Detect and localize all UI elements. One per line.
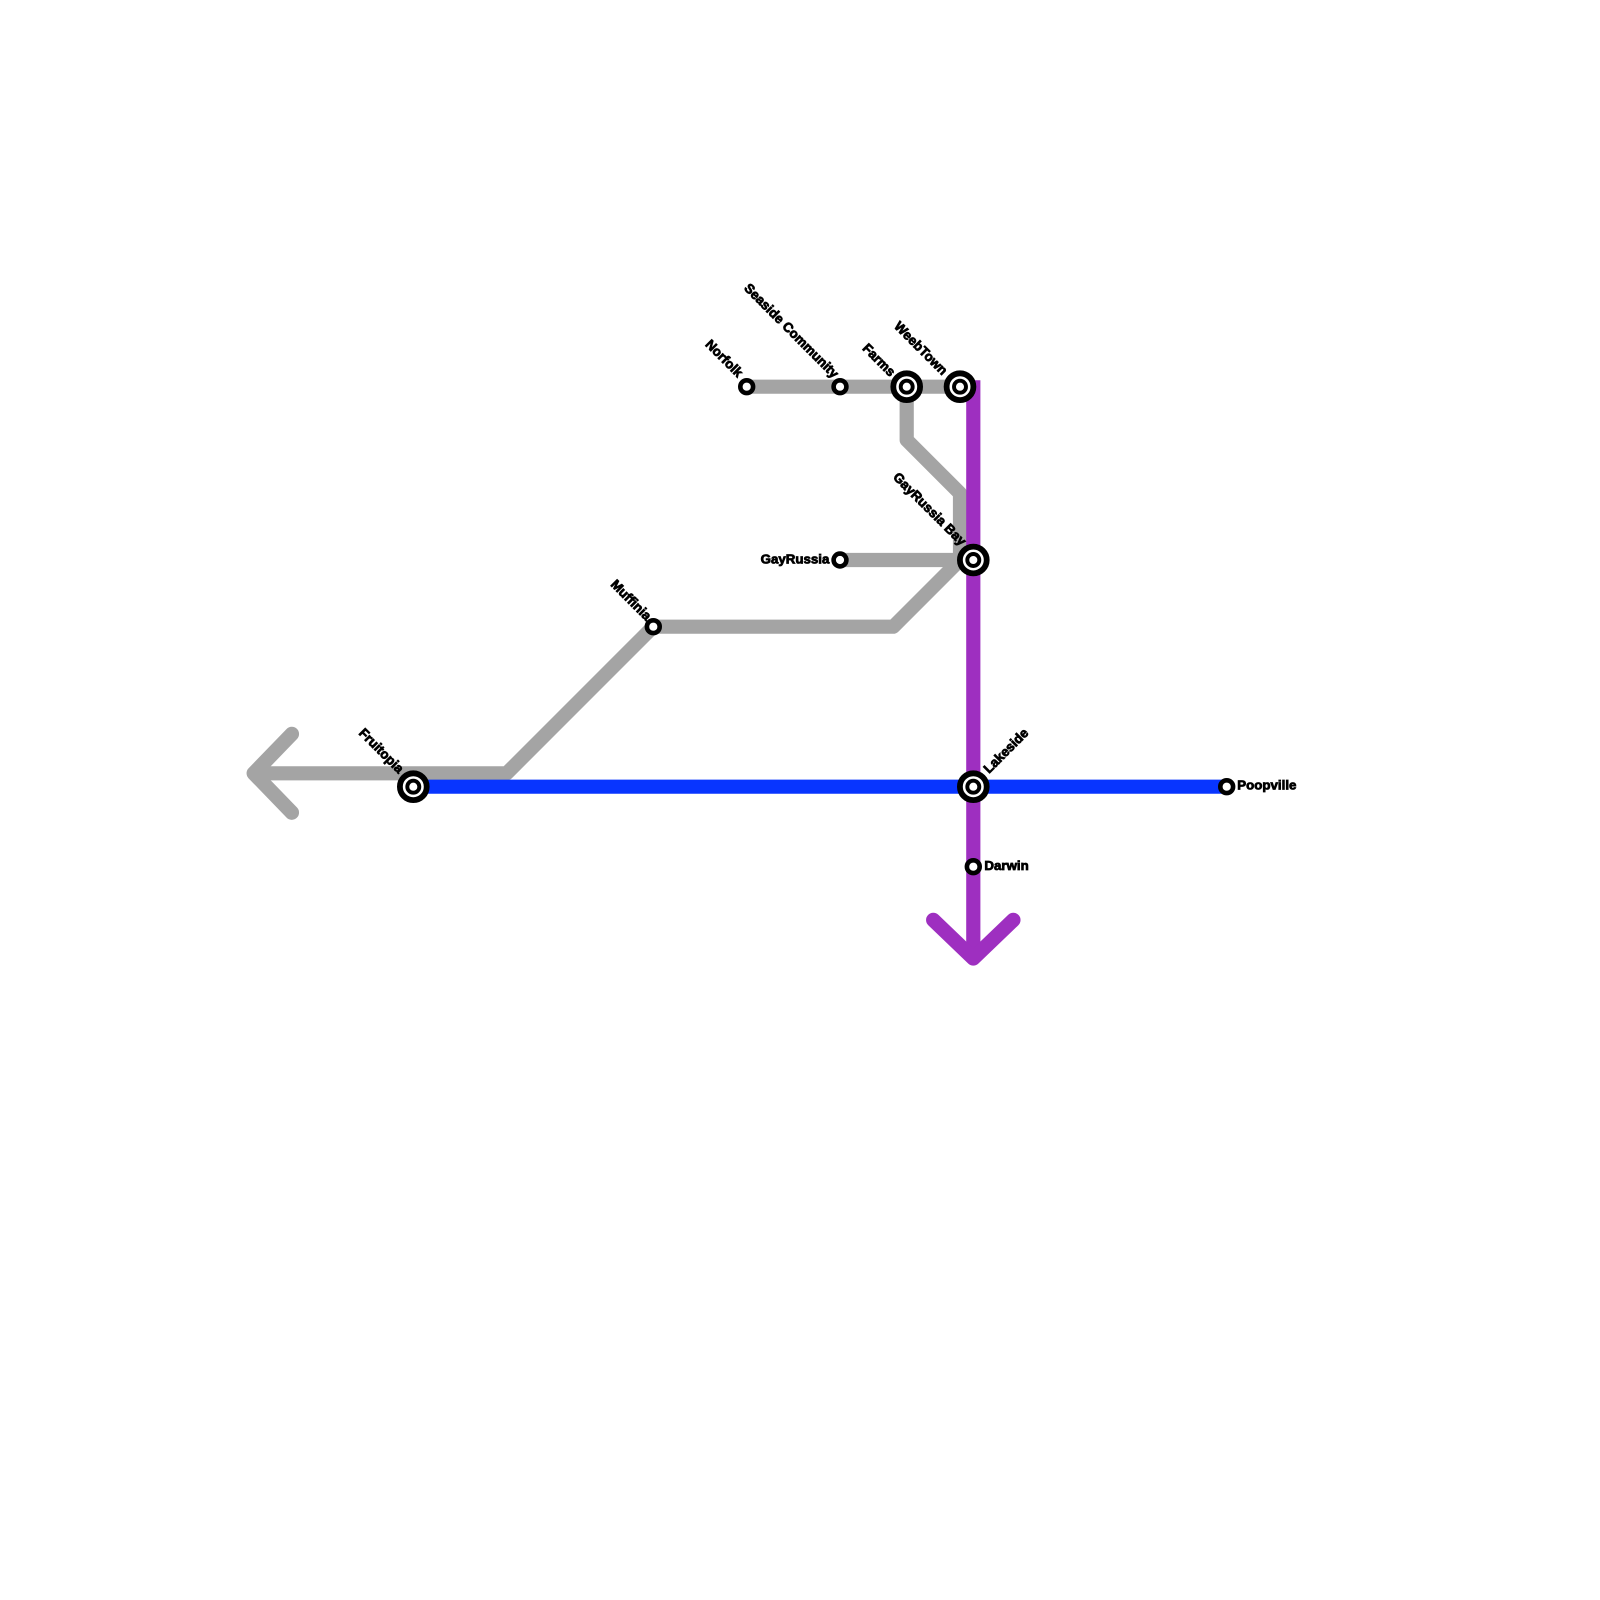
svg-text:GayRussia: GayRussia xyxy=(761,551,830,566)
station Darwin xyxy=(967,860,980,873)
station Fruitopia (transfer) xyxy=(400,773,427,800)
wire blue line Fruitopia-Poopville xyxy=(413,780,1226,794)
station Seaside Community xyxy=(834,380,847,393)
svg-text:Poopville: Poopville xyxy=(1237,778,1296,793)
station Poopville xyxy=(1220,780,1233,793)
station Farms (transfer) xyxy=(893,373,920,400)
wire gray spur GayRussia-GayRussia Bay xyxy=(840,553,973,567)
station GayRussia xyxy=(834,554,847,567)
station Lakeside (transfer) xyxy=(960,773,987,800)
wire gray line Norfolk-WeebTown xyxy=(747,380,960,394)
purple arrow south end xyxy=(933,920,1013,958)
station Muffinia xyxy=(647,620,660,633)
station Norfolk xyxy=(740,380,753,393)
station GayRussia Bay (transfer) xyxy=(960,547,987,574)
wire gray line Farms branch to GayRussia Bay xyxy=(907,387,974,560)
wire purple line WeebTown-south xyxy=(966,380,980,953)
gray arrow west end xyxy=(254,734,292,813)
station WeebTown (transfer) xyxy=(947,373,974,400)
wire gray line GayRussia Bay-Muffinia-southwest xyxy=(261,560,973,773)
svg-text:Darwin: Darwin xyxy=(984,858,1028,873)
